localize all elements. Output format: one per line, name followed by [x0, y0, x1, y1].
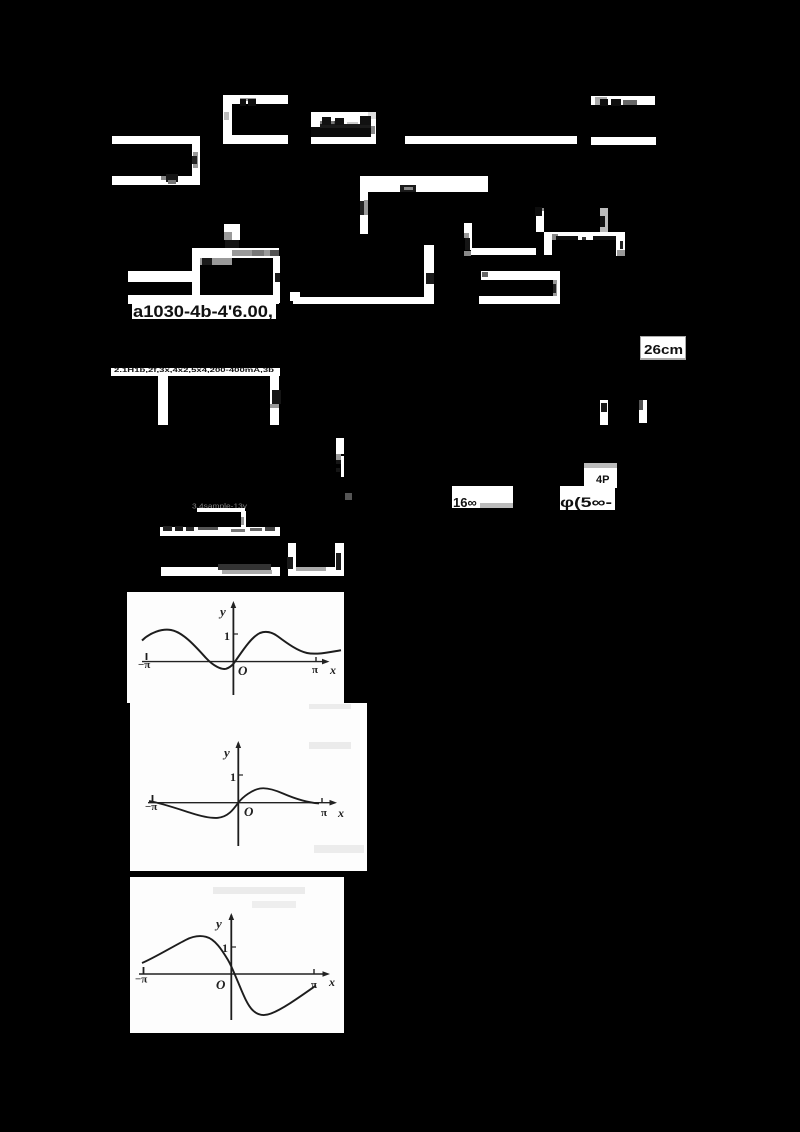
svg-text:y: y: [214, 916, 222, 931]
svg-text:1: 1: [230, 770, 236, 784]
svg-text:a1030-4b-4'6.00,: a1030-4b-4'6.00,: [133, 303, 273, 321]
svg-text:φ(5∞-: φ(5∞-: [560, 494, 612, 510]
svg-text:O: O: [238, 663, 248, 678]
svg-text:x: x: [328, 975, 335, 989]
svg-text:26cm: 26cm: [644, 342, 683, 357]
svg-text:16∞: 16∞: [453, 495, 477, 510]
svg-text:x: x: [337, 806, 344, 820]
svg-text:4P: 4P: [596, 474, 609, 486]
svg-text:O: O: [244, 804, 254, 819]
svg-text:1: 1: [224, 629, 230, 643]
svg-text:y: y: [222, 745, 230, 760]
svg-text:π: π: [321, 807, 327, 819]
svg-text:x: x: [329, 663, 336, 677]
svg-text:2.1H1b,2f,3x,4x2,5x4,200-400mA: 2.1H1b,2f,3x,4x2,5x4,200-400mA,3b: [114, 368, 275, 374]
svg-text:π: π: [312, 664, 318, 676]
svg-text:−π: −π: [135, 974, 147, 986]
svg-text:y: y: [218, 604, 226, 619]
svg-text:−π: −π: [138, 659, 150, 671]
svg-text:O: O: [216, 977, 226, 992]
